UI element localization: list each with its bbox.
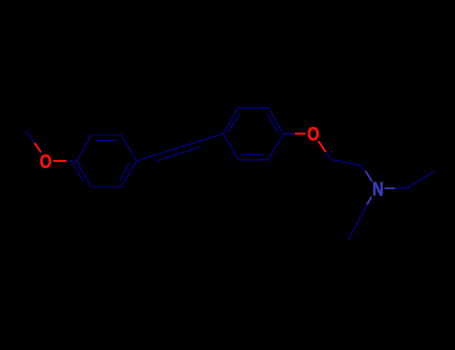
wire: N to CH2 down-left bond (blue half) [367, 197, 372, 205]
wire: methyl CH3 to O1 bond (red lower part) [35, 143, 42, 152]
wire: O2 to C1' bond (navy lower part) [326, 152, 331, 159]
svg-text:O: O [40, 151, 52, 173]
wire: methyl CH3 to O1 bond (navy upper part) [26, 131, 35, 143]
wire: N to CH2 right bond (navy half) [395, 187, 407, 189]
ring2 benzene hexagon [223, 108, 283, 160]
ring1 inner aromatic line left-lower edge [72, 163, 83, 182]
svg-text:N: N [372, 178, 383, 200]
wire: CH2 to CH3 right ethyl terminal bond [407, 172, 434, 189]
wire: C1' to C2' bond [331, 160, 360, 166]
wire: O1 to ring1 left vertex (red half) [53, 160, 66, 162]
ring2 inner aromatic line bottom edge [243, 154, 264, 156]
wire: C2' to N bond (blue half) [366, 171, 373, 181]
wire: N to CH2 right bond (blue half) [385, 187, 395, 189]
wire: O1 to ring1 left vertex (navy half) [67, 160, 77, 162]
wire: N to CH2 down-left bond (navy half) [362, 205, 367, 215]
wire: C2' to N bond (navy half) [360, 166, 366, 172]
svg-text:O: O [307, 123, 319, 145]
atom O1 (methoxy oxygen) [40, 151, 52, 173]
atom N (diethylamino nitrogen) [372, 178, 383, 200]
wire: O2 to C1' bond (red upper part) [318, 141, 326, 152]
wire: CH2 to CH3 lower ethyl terminal bond [349, 214, 363, 239]
wire: ring2 right vertex to O2 (navy half) [283, 133, 295, 135]
atom O2 (aryl ether oxygen) [307, 123, 319, 145]
wire: chain ring1 to ring2, collinear CH=CH bridge main line [137, 134, 224, 161]
ring1 inner aromatic line top edge [96, 140, 117, 142]
wire: C=C double bond inner parallel line [156, 147, 200, 161]
wire: ring2 right vertex to O2 (red half) [295, 133, 305, 135]
ring1 inner aromatic line right-lower edge [119, 163, 130, 182]
ring2 inner aromatic line right-upper edge [267, 114, 278, 133]
ring2 inner aromatic line left-upper edge [229, 114, 240, 133]
ring1 benzene hexagon [77, 135, 137, 187]
